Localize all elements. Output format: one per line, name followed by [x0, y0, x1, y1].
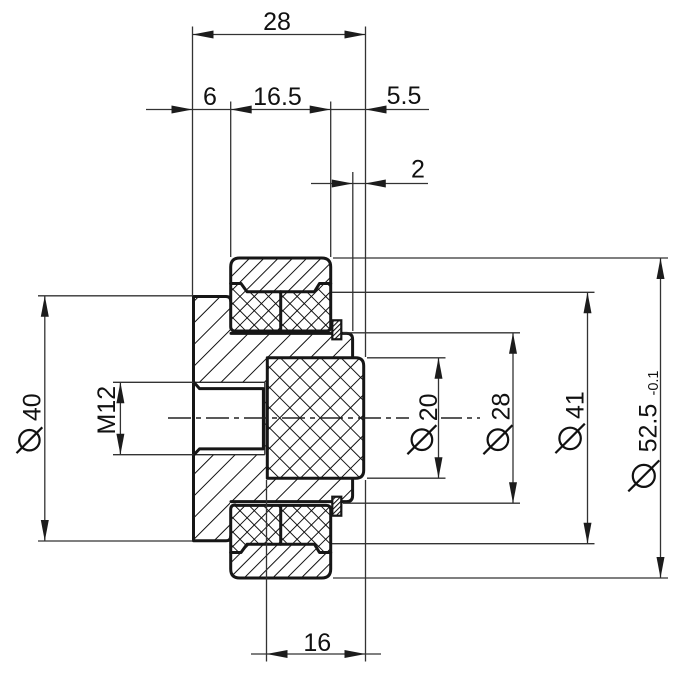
dimension D28 right	[343, 333, 520, 503]
center block (bearing inner)	[267, 358, 363, 479]
svg-text:5.5: 5.5	[387, 82, 422, 110]
svg-text:28: 28	[263, 8, 291, 36]
dimension D40 left	[17, 296, 193, 541]
svg-text:20: 20	[415, 393, 443, 421]
dimension 2	[311, 156, 428, 332]
svg-text:-0.1: -0.1	[646, 371, 662, 396]
dimension M12	[93, 382, 194, 454]
dimension 28 top	[193, 8, 366, 357]
dimension D52.5 -0.1 right	[333, 258, 668, 578]
dimension D41 right	[332, 292, 595, 543]
top circlip	[332, 320, 341, 339]
svg-text:16.5: 16.5	[253, 83, 302, 111]
center axis line	[168, 417, 409, 419]
svg-text:M12: M12	[93, 386, 121, 435]
svg-text:41: 41	[562, 391, 590, 419]
hub hatched body	[194, 297, 353, 541]
M12 threaded hole cavity	[194, 382, 265, 454]
bottom circlip	[332, 497, 341, 516]
svg-text:16: 16	[303, 629, 331, 657]
svg-text:2: 2	[411, 156, 425, 184]
hub outline	[194, 297, 353, 541]
svg-text:52.5: 52.5	[634, 404, 662, 453]
M12 thread crest lines	[194, 382, 265, 454]
svg-text:40: 40	[19, 393, 47, 421]
dimension 16 bottom	[251, 480, 381, 662]
svg-text:6: 6	[203, 83, 217, 111]
dimension D20 right	[367, 358, 446, 478]
bottom flange (roller)	[231, 505, 331, 578]
dimension row 6 / 16.5 / 5.5	[146, 82, 429, 257]
top flange (roller)	[231, 258, 331, 331]
svg-text:28: 28	[488, 393, 516, 421]
M12 bore outline	[194, 382, 263, 454]
